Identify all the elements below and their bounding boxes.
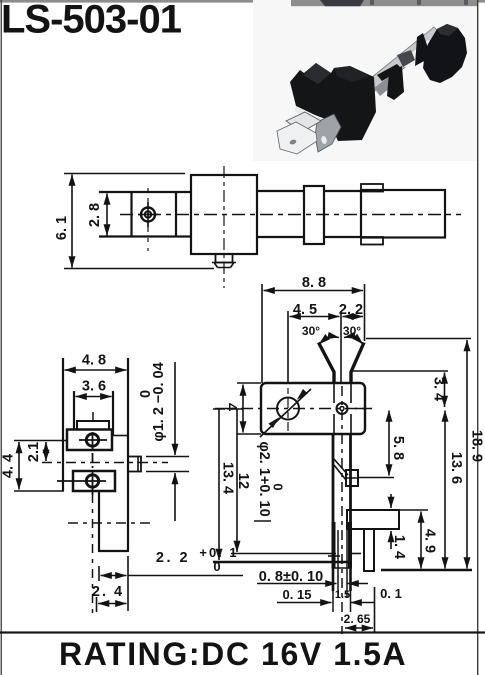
ext 2.4 left tick [96,597,98,612]
ref clip 5.8 [358,477,394,479]
contact plate [77,421,109,430]
ext line bottom 6.1 [64,268,214,270]
svg-text:4. 9: 4. 9 [422,529,438,553]
small circle inner [340,407,344,411]
dim 2.8 line [106,194,108,236]
leader arrow upper [297,389,308,400]
cavity left edge [73,391,75,430]
ext 8.8 left [261,284,263,383]
small body top edge [99,191,191,193]
tick y383 [237,382,261,384]
pin tick [328,555,340,557]
ring [304,186,324,244]
dim 4 line [242,385,244,433]
gray tab with hole [315,114,341,152]
shaft hidden right upper [350,383,352,403]
lever right arm [351,343,364,384]
dim 2.1 line [45,442,47,461]
svg-text:13. 4: 13. 4 [220,462,236,494]
screw circle [141,208,155,222]
phi1.2 ext top [146,456,189,458]
leg centerline horizontal [68,522,150,524]
black end piece [423,24,467,83]
collar cap top [361,184,383,192]
block vertical centerline [223,166,225,288]
pin below block [216,254,233,263]
upper metal prong [286,112,321,132]
dim 1.4 upper arrow [390,494,392,508]
central block [191,175,257,254]
small circle outer [337,403,348,414]
dim 3.4 line [444,373,446,408]
dim 0.15 line [277,602,332,604]
spring wedge line 1 [334,459,348,475]
screw cross vertical [147,202,149,227]
small body left edge [130,191,132,238]
clip mid line [346,477,358,479]
svg-text:0: 0 [138,390,154,398]
terminal bar [347,510,399,529]
screw circle inner [145,211,151,217]
ext leg left tick [98,566,100,581]
middle piece leg [387,66,404,100]
svg-text:1.5: 1.5 [335,589,350,601]
svg-text:30°: 30° [343,324,361,338]
shaft section 1 bottom [257,236,304,238]
shaft right bold tip [348,522,352,568]
svg-text:5. 8: 5. 8 [390,436,406,460]
main centerline [120,214,461,216]
leader arrow lower [268,417,279,428]
dark blob on strip edge [397,50,415,67]
step line right [113,435,128,437]
svg-text:2. 4: 2. 4 [92,584,124,600]
center dash between boxes [92,453,94,468]
ext line top 6.1 [64,173,185,175]
dark shape on top strip [320,0,364,6]
ref 13.4 bottom [213,561,348,563]
stub right of shaft [352,553,361,555]
plate center tick [92,412,94,421]
tick centerline right of body [355,408,372,410]
dim 0.8 right line [348,583,369,585]
small body bottom edge [99,235,191,237]
phi1.2 ext bottom [146,471,189,473]
svg-text:8. 8: 8. 8 [302,275,326,291]
svg-text:1. 4: 1. 4 [391,535,407,559]
svg-text:6. 1: 6. 1 [54,216,70,240]
svg-text:2.1: 2.1 [26,442,42,462]
shaft centerline [341,386,343,634]
shaft left edge [332,434,335,568]
ref lever bend 3.4 [352,370,448,372]
ref lever top 18.9 [366,338,471,340]
dim 3.6 line [76,396,112,398]
top gray bar [0,0,485,3]
svg-text:4: 4 [223,403,239,411]
dim 1.4 lower arrow [390,531,392,549]
strip dark patch [374,76,396,96]
pin flange [212,263,236,268]
dim 0.1 line [351,602,375,604]
svg-text:12: 12 [235,473,251,489]
mark on upper prong [294,123,301,128]
bottom separator line [0,631,485,633]
pin phi1.2 [128,457,141,472]
dim 2.4 line [98,603,127,605]
ext right x128 [127,556,129,611]
pin ext verticals [332,568,335,591]
cavity right edge [112,391,114,436]
angle arc right [344,337,363,344]
shaft hidden right lower [350,414,352,434]
phi1.2 dim lower [174,473,176,521]
leg left edge [98,491,100,551]
body top facet left [303,63,331,84]
big circle centerline [287,388,289,431]
svg-text:φ1. 2 −0. 04: φ1. 2 −0. 04 [151,362,167,441]
dim 13.6 line [444,411,446,569]
ref line y491 [14,490,64,492]
svg-text:4. 4: 4. 4 [1,454,17,478]
head body [261,383,365,434]
svg-text:RATING:DC 16V 1.5A: RATING:DC 16V 1.5A [59,636,407,672]
shaft hidden left upper [333,383,335,403]
svg-text:13. 6: 13. 6 [448,452,464,484]
ref 12 bottom [231,553,336,555]
svg-text:0: 0 [271,483,286,490]
screw cross horizontal [138,214,158,216]
dim 18.9 line [466,340,468,569]
svg-text:3. 4: 3. 4 [431,377,447,401]
svg-text:3. 6: 3. 6 [82,379,106,395]
pin bottom closures [332,567,352,569]
shaft section 2 top [324,190,361,192]
terminal leg [364,529,374,571]
lower metal prong [277,122,317,154]
svg-text:0. 8±0. 10: 0. 8±0. 10 [259,569,323,585]
leg centerline vertical [92,494,94,619]
main centerline horizontal [215,408,372,410]
svg-text:2. 2: 2. 2 [339,302,363,318]
centerline horizontal [42,462,168,464]
phi2.1 underline [254,520,271,522]
small body divider [175,191,177,238]
dim 2.2 line [343,316,364,318]
tick y434 [237,433,261,435]
dim 4.4 line [18,442,20,490]
dim 8.8 line [264,290,364,292]
dim 4.9 line [420,512,422,569]
svg-text:18. 9: 18. 9 [469,430,485,462]
glint on body edge [294,107,327,126]
big circle [277,398,299,420]
hole in lower prong [289,139,297,145]
spring wedge line 2 [334,465,346,480]
dim 5.8 line [388,411,390,476]
terminal bar top ext [399,509,428,511]
ref line y440 [14,440,67,442]
left border [1,0,2,675]
dim 2.2 tail [128,575,243,577]
svg-text:LS-503-01: LS-503-01 [1,0,182,42]
phi1.2 dim upper [174,362,176,455]
metal strip [345,27,444,108]
dim 0.8 left line [257,583,337,585]
dim 4.8 line [65,369,127,371]
lower contact circle [86,475,98,487]
svg-text:2. 2: 2. 2 [156,550,190,566]
leader phi2.1 [260,389,311,437]
strip highlight [400,40,436,69]
right border [477,0,478,675]
photo top gray strip [291,0,477,6]
leg bottom [98,550,129,552]
main black body [290,63,376,141]
collar cap bottom [361,237,383,245]
lever left arm [319,343,335,384]
shaft section 2 bottom [324,236,361,238]
shaft section 1 top [257,190,304,192]
bottom ref bold [381,569,472,572]
shaft right edge [349,434,352,568]
ext terminal leg right [374,587,376,632]
lower circle cross h [57,480,106,482]
end piece top facet [437,24,458,36]
end piece tooth [415,33,428,66]
dim 4.5 line [290,316,340,318]
pin end cap [137,457,139,472]
ext lever center [340,311,342,383]
upper circle cross h [79,439,107,441]
svg-text:2. 65: 2. 65 [344,612,371,626]
screw centerline dashes [147,188,149,251]
photo background [253,0,477,161]
upper contact box [67,430,112,451]
svg-text:4. 8: 4. 8 [82,353,106,369]
lower contact box [73,471,115,491]
upper circle cross v [92,432,94,450]
body left edge [62,358,64,491]
svg-text:2. 8: 2. 8 [87,203,103,227]
dim 13.4 line [218,409,220,560]
lower circle cross v [92,471,94,495]
dim 6.1 line [71,175,73,268]
body right edge [127,358,129,551]
shaft hidden left lower [333,414,335,434]
right body [361,190,445,238]
shaft left bold tip [332,522,336,568]
svg-text:30°: 30° [302,324,320,338]
ext 4.5 left [287,311,289,384]
ext 8.8 right [364,284,366,341]
svg-text:0. 1: 0. 1 [380,586,402,601]
clip square [346,470,358,486]
tick 13.4 top [213,408,225,410]
body top facet right [334,66,370,82]
tick 12 top [231,408,243,410]
dim 2.2 line [101,575,127,577]
angle arc left [319,337,339,344]
dim 12 line [236,409,238,552]
svg-text:φ2. 1+0. 10: φ2. 1+0. 10 [256,441,272,516]
upper contact circle [86,434,98,446]
hole in gray tab [320,135,327,144]
dim 2.65 line [345,627,373,629]
svg-text:4. 5: 4. 5 [293,302,317,318]
middle black piece [377,64,402,81]
svg-text:0. 15: 0. 15 [283,587,312,602]
